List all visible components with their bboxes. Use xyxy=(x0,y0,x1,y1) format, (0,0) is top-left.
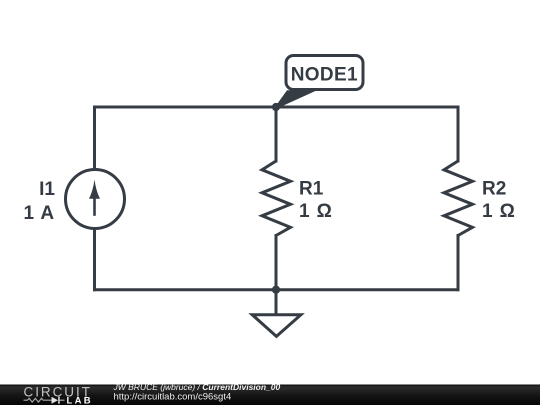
node junction dot top xyxy=(272,103,280,111)
wire R2 bottom stub xyxy=(457,236,460,290)
node junction dot bottom xyxy=(272,286,280,294)
wire R2 top stub xyxy=(457,107,460,161)
svg-text:I1: I1 xyxy=(39,179,55,200)
footer bar xyxy=(0,385,540,405)
wire R1 top stub xyxy=(275,107,278,161)
node NODE1 flag tail xyxy=(273,90,318,110)
wire R1 bottom stub xyxy=(275,236,278,290)
wire left vertical upper xyxy=(93,107,96,169)
logo diode xyxy=(52,397,59,404)
logo resistor squiggle xyxy=(24,398,52,402)
svg-text:http://circuitlab.com/c96sgt4: http://circuitlab.com/c96sgt4 xyxy=(114,391,232,402)
resistor R1 xyxy=(262,161,291,236)
node NODE1 bubble xyxy=(286,56,363,90)
svg-text:1 Ω: 1 Ω xyxy=(482,201,516,222)
ground xyxy=(252,290,301,337)
svg-text:NODE1: NODE1 xyxy=(291,64,358,85)
wire left vertical lower xyxy=(93,230,96,290)
svg-text:R2: R2 xyxy=(482,179,506,200)
svg-text:1 A: 1 A xyxy=(23,203,55,224)
resistor R2 xyxy=(444,161,473,236)
svg-text:1 Ω: 1 Ω xyxy=(299,201,333,222)
svg-text:LAB: LAB xyxy=(67,396,93,405)
wire bottom horizontal xyxy=(95,288,459,291)
svg-text:R1: R1 xyxy=(299,179,324,200)
current source I1 xyxy=(66,170,125,229)
wire top horizontal xyxy=(95,106,459,109)
